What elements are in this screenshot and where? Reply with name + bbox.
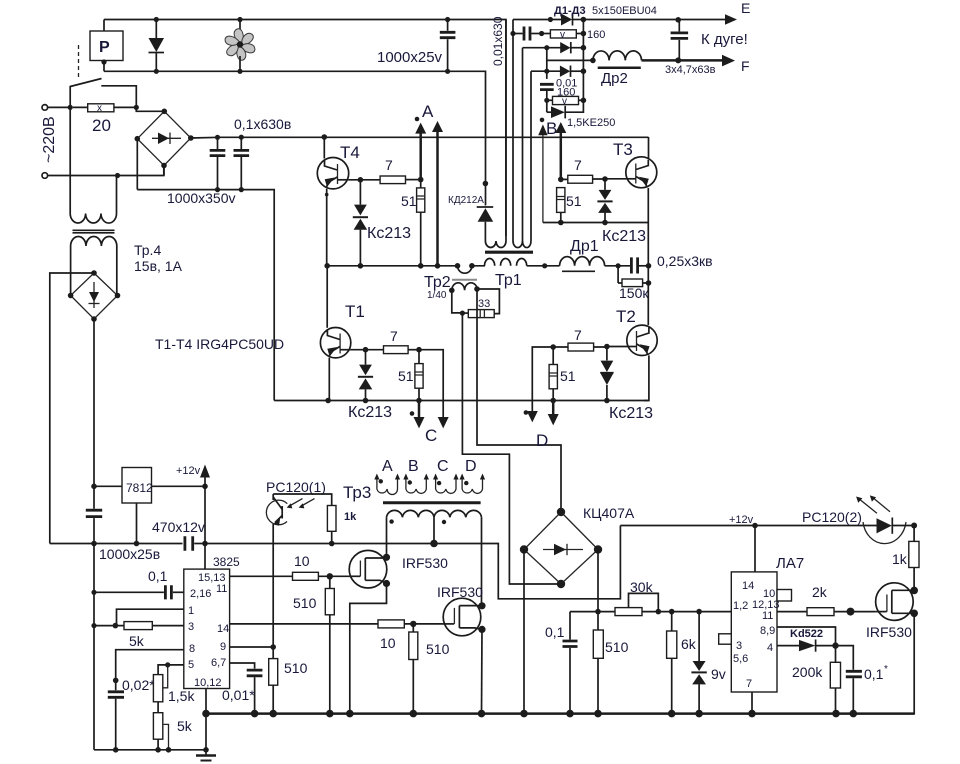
svg-text:5x150EBU04: 5x150EBU04 <box>592 5 657 17</box>
node A arrows <box>415 102 443 269</box>
svg-text:7812: 7812 <box>126 481 153 495</box>
fuse-thermistor x 20 <box>73 103 139 135</box>
svg-text:51: 51 <box>566 193 582 209</box>
svg-text:1k: 1k <box>892 551 908 567</box>
svg-text:510: 510 <box>293 595 317 611</box>
resistor 51 T4 <box>401 180 425 269</box>
svg-text:F: F <box>741 58 750 74</box>
resistor 510 two <box>409 624 450 717</box>
wire negative rail caps <box>137 190 274 401</box>
resistor 33 <box>452 289 500 318</box>
svg-text:Т1-Т4 IRG4PC50UD: Т1-Т4 IRG4PC50UD <box>155 336 284 352</box>
svg-text:1,5KE250: 1,5KE250 <box>567 117 615 129</box>
label ~220B <box>41 116 58 163</box>
svg-text:3825: 3825 <box>213 555 240 569</box>
svg-text:С: С <box>425 426 437 445</box>
svg-text:К дуге!: К дуге! <box>701 31 748 48</box>
label Tr4 <box>134 242 183 274</box>
svg-text:В: В <box>546 119 557 138</box>
svg-text:7: 7 <box>746 678 752 690</box>
svg-text:51: 51 <box>560 368 576 384</box>
snubber cap row2 <box>510 27 550 41</box>
svg-text:1/40: 1/40 <box>427 290 447 301</box>
diode KD212A <box>448 181 493 222</box>
svg-text:D: D <box>465 458 477 475</box>
svg-text:6,7: 6,7 <box>211 657 226 669</box>
svg-text:IRF530: IRF530 <box>437 584 483 600</box>
svg-text:8,9: 8,9 <box>760 625 775 637</box>
wire IRF1 source <box>346 584 387 718</box>
capacitor 0,1x630v a <box>210 135 226 193</box>
transistor T2 <box>616 307 657 401</box>
wire IRF3 source <box>910 613 914 713</box>
svg-text:10,12: 10,12 <box>194 677 222 689</box>
svg-text:5,6: 5,6 <box>733 653 748 665</box>
wire bottom bus2 <box>94 747 209 753</box>
wire KC407A plus node <box>595 550 601 615</box>
capacitor 470x12v <box>152 519 208 551</box>
svg-text:510: 510 <box>426 641 450 657</box>
svg-text:7: 7 <box>574 327 582 343</box>
wire rail +310 to inverter <box>191 136 649 139</box>
svg-text:7: 7 <box>574 157 582 173</box>
capacitor 0,02 <box>108 677 155 750</box>
wire output E <box>583 0 750 25</box>
fan M1 <box>223 17 256 74</box>
winding B Tr3 <box>403 458 429 493</box>
svg-text:51: 51 <box>398 368 414 384</box>
transistor T4 <box>317 134 360 266</box>
svg-text:0,25x3кв: 0,25x3кв <box>657 253 713 269</box>
svg-text:3: 3 <box>736 640 742 652</box>
svg-text:PC120(1): PC120(1) <box>266 479 326 495</box>
wire pin9 node <box>230 644 276 650</box>
MOSFET IRF530 three <box>866 583 918 640</box>
svg-text:1000x25v: 1000x25v <box>377 49 443 66</box>
resistor 10 two <box>230 620 441 651</box>
label T1-T4 IRG4PC50UD <box>155 336 284 352</box>
svg-text:PC120(2): PC120(2) <box>802 509 862 525</box>
wire aux plus down <box>93 319 95 486</box>
svg-text:10: 10 <box>380 635 396 651</box>
resistor 51 T1 <box>398 350 423 404</box>
svg-text:14: 14 <box>742 580 754 592</box>
transformer Tr4 core <box>73 230 115 233</box>
node B arrows <box>538 118 566 223</box>
wire lower rail <box>274 400 648 402</box>
snubber resistor v row2 <box>550 29 605 41</box>
svg-text:P: P <box>99 39 110 56</box>
svg-text:Тр1: Тр1 <box>495 272 522 289</box>
svg-text:6k: 6k <box>681 636 697 652</box>
svg-text:11: 11 <box>216 583 227 595</box>
diode D1 <box>561 14 586 26</box>
svg-text:Кс213: Кс213 <box>367 225 411 242</box>
svg-text:E: E <box>741 0 750 16</box>
wire aux minus to ground rail <box>50 273 94 544</box>
resistor 510 one <box>293 576 334 717</box>
transformer Tr1 core <box>485 251 533 254</box>
resistor 7 T4 <box>380 157 423 184</box>
wire gnd left vertical <box>91 544 96 750</box>
svg-text:КД212А: КД212А <box>448 195 484 206</box>
svg-text:160: 160 <box>587 29 605 41</box>
snubber resistor v row5 <box>547 96 586 107</box>
MOSFET IRF530 two <box>437 584 486 636</box>
svg-text:0,1x630в: 0,1x630в <box>234 116 291 132</box>
capacitor 0,25x3kv <box>605 253 713 274</box>
resistor 2k <box>777 584 876 616</box>
svg-text:Кс213: Кс213 <box>602 228 646 245</box>
resistor 7 T2 <box>550 327 627 351</box>
svg-text:11: 11 <box>762 610 773 622</box>
svg-text:С: С <box>437 458 449 475</box>
svg-text:Д1-Д3: Д1-Д3 <box>554 5 586 17</box>
svg-text:1000x25в: 1000x25в <box>99 546 160 562</box>
bridge rectifier VD1 input <box>135 107 194 189</box>
potentiometer 30k <box>615 579 731 616</box>
IC U2 LA7 <box>719 555 805 692</box>
wire pin1 <box>117 609 184 625</box>
zener Kc213 T1 <box>348 350 392 421</box>
zener Kc213 T3 <box>597 179 646 245</box>
svg-text:1: 1 <box>188 605 194 617</box>
svg-text:15в, 1А: 15в, 1А <box>134 258 183 274</box>
svg-text:3x4,7x63в: 3x4,7x63в <box>665 64 716 76</box>
wire secondary tap row1 <box>513 17 561 22</box>
wire fb node rail <box>570 611 615 613</box>
wire anode bus to Dr2 <box>547 48 596 79</box>
svg-text:0,01*: 0,01* <box>222 687 255 703</box>
svg-text:470x12v: 470x12v <box>152 519 205 535</box>
svg-text:33: 33 <box>478 298 490 310</box>
transistor T1 <box>320 263 364 403</box>
svg-text:20: 20 <box>92 116 111 135</box>
diode Kd522 <box>777 628 839 652</box>
optocoupler PC120-2 <box>802 495 917 543</box>
svg-text:Тр.4: Тр.4 <box>134 242 161 258</box>
capacitor 0,1 fb <box>545 612 578 718</box>
svg-text:T3: T3 <box>613 140 633 159</box>
capacitor 3x4,7x63v <box>665 20 716 76</box>
terminal ~220V upper <box>42 105 73 111</box>
wire +12v to center tap <box>434 526 620 599</box>
zener Kc213 T4 <box>353 180 411 269</box>
capacitor snubber 0,01 160 <box>540 78 577 113</box>
resistor 7 T3 <box>561 157 626 183</box>
transformer Tr4 secondary <box>71 236 117 295</box>
terminal ~220V lower <box>42 167 164 179</box>
capacitor 0,01 pin67 <box>222 670 262 717</box>
diode D3 <box>560 66 586 77</box>
transformer Tr1 secondary <box>472 258 560 289</box>
wire ground rail left <box>50 543 183 545</box>
svg-text:9v: 9v <box>711 666 726 682</box>
svg-text:0,1: 0,1 <box>545 624 565 640</box>
svg-text:x: x <box>97 103 102 114</box>
wire +12v rail right <box>620 514 876 526</box>
winding C Tr3 <box>433 458 459 493</box>
resistor 7 T1 <box>384 328 422 354</box>
svg-text:4: 4 <box>767 642 773 654</box>
svg-text:+12v: +12v <box>729 514 754 526</box>
diode VD-fan <box>149 17 165 74</box>
svg-text:200k: 200k <box>792 664 823 680</box>
MOSFET IRF530 one <box>349 550 448 588</box>
inductor Dr1 <box>560 238 605 271</box>
resistor 10 one <box>230 553 350 580</box>
resistor 510 fb <box>593 612 628 718</box>
wire pin89 <box>777 627 836 646</box>
svg-text:7: 7 <box>385 157 393 173</box>
svg-text:10: 10 <box>294 553 310 569</box>
zener Kc213 T2 <box>600 347 653 423</box>
svg-text:v: v <box>560 29 565 40</box>
transformer Tr3 core <box>383 501 481 504</box>
node D arrows <box>524 347 559 450</box>
wire +12v rail mid <box>205 486 434 543</box>
regulator 7812 <box>91 468 205 547</box>
resistor 1k opto <box>327 506 357 547</box>
svg-text:КЦ407А: КЦ407А <box>583 505 635 521</box>
svg-text:Кс213: Кс213 <box>609 405 653 422</box>
svg-text:В: В <box>408 458 419 475</box>
svg-text:2k: 2k <box>812 584 828 600</box>
svg-text:14: 14 <box>217 623 229 635</box>
wire E bus vertical <box>582 20 584 101</box>
node C arrows <box>410 350 449 445</box>
svg-text:Kd522: Kd522 <box>790 628 823 640</box>
svg-text:Тр3: Тр3 <box>343 483 371 502</box>
wire LA7 pin14 <box>752 523 758 572</box>
wire secondary tap row3 <box>523 45 561 50</box>
svg-text:ЛА7: ЛА7 <box>776 555 804 572</box>
ground symbol <box>196 689 216 761</box>
transformer Tr3 secondary <box>387 510 482 605</box>
capacitor 0,1 star <box>836 646 889 718</box>
svg-text:0,02*: 0,02* <box>122 677 155 693</box>
svg-text:*: * <box>884 664 888 675</box>
wire top rail +310 upper <box>104 20 506 237</box>
svg-text:~220В: ~220В <box>41 116 58 163</box>
svg-text:T4: T4 <box>340 143 360 162</box>
svg-text:5k: 5k <box>129 633 145 649</box>
zener 9v <box>691 612 725 718</box>
resistor 51 T3 <box>557 188 582 226</box>
svg-text:1,5k: 1,5k <box>168 688 195 704</box>
node +12v arrow <box>176 465 210 490</box>
transformer Tr2 current <box>424 263 480 301</box>
wire T4 gate node <box>349 177 380 183</box>
inductor Dr2 <box>593 51 642 87</box>
svg-text:А: А <box>422 102 434 121</box>
wire pin5 <box>158 662 184 687</box>
IC U1 3825 <box>184 544 240 690</box>
transformer Tr1 primary hairpins <box>485 20 531 248</box>
resistor 150k <box>618 266 651 301</box>
svg-text:5k: 5k <box>177 718 193 734</box>
resistor 5k pin3 <box>94 622 184 649</box>
relay P1 <box>90 20 123 72</box>
svg-text:30k: 30k <box>630 579 654 595</box>
label D1-D3 <box>554 5 657 17</box>
transformer Tr4 primary <box>70 107 116 223</box>
wire pin8 to cap <box>113 650 184 691</box>
diode D2 <box>560 42 586 53</box>
wire LA7 pin7 <box>748 692 756 717</box>
svg-text:Др1: Др1 <box>570 238 599 255</box>
svg-text:Тр2: Тр2 <box>424 274 451 291</box>
diode 1,5KE250 <box>547 100 616 129</box>
wire Tr2 sec right to KC407 <box>477 289 561 512</box>
resistor 1,5k <box>153 675 195 713</box>
svg-text:0,01x630: 0,01x630 <box>491 16 505 66</box>
svg-text:v: v <box>562 96 567 107</box>
optocoupler PC120-1 <box>266 479 332 647</box>
svg-text:2,16: 2,16 <box>190 588 211 600</box>
svg-text:T2: T2 <box>616 307 636 326</box>
label K duge <box>701 31 748 48</box>
wire Tr2 sec left to KC407 <box>462 313 561 584</box>
wire second rail <box>104 71 486 205</box>
wire T1 gate node <box>350 347 383 353</box>
svg-text:7: 7 <box>390 328 398 344</box>
wire pin67 <box>230 663 255 669</box>
label 0,01x630 vertical <box>491 16 505 66</box>
winding D Tr3 <box>460 458 486 493</box>
bridge rectifier VD2 aux <box>68 270 121 322</box>
svg-text:3: 3 <box>188 621 194 633</box>
resistor 1k right <box>892 526 919 591</box>
capacitor 0,1 pin216 <box>94 568 184 599</box>
svg-text:1,2: 1,2 <box>733 600 748 612</box>
svg-text:5: 5 <box>188 659 194 671</box>
resistor 200k <box>792 646 841 718</box>
wire midpoint bus left <box>327 265 438 267</box>
resistor 510 pin9 <box>269 647 308 717</box>
bridge KC407A <box>520 505 635 588</box>
svg-text:1k: 1k <box>344 511 357 523</box>
svg-text:0,1: 0,1 <box>864 666 884 682</box>
wire IRF2 source <box>478 629 486 717</box>
resistor 6k <box>667 612 697 718</box>
resistor 5k trim <box>153 713 192 750</box>
svg-text:9: 9 <box>220 641 226 653</box>
switch S1 with dashed link to relay <box>70 45 136 107</box>
svg-text:8: 8 <box>189 643 195 655</box>
wire secondary tap row4 <box>531 69 560 74</box>
wire output F <box>642 55 750 74</box>
capacitor 1000x25v left <box>86 486 160 562</box>
svg-text:51: 51 <box>401 193 417 209</box>
capacitor 0,1x630v b <box>234 116 292 192</box>
wire T3 emitter bus <box>543 223 648 326</box>
label 1000x350v <box>167 190 236 206</box>
svg-text:А: А <box>382 458 393 475</box>
svg-text:IRF530: IRF530 <box>402 555 448 571</box>
svg-text:0,1: 0,1 <box>148 568 168 584</box>
svg-text:IRF530: IRF530 <box>866 624 912 640</box>
svg-text:Кс213: Кс213 <box>348 404 392 421</box>
wire ground bus main <box>202 710 914 718</box>
svg-text:1000x350v: 1000x350v <box>167 190 236 206</box>
svg-text:510: 510 <box>284 660 308 676</box>
svg-text:D: D <box>536 431 548 450</box>
svg-text:Др2: Др2 <box>601 70 628 87</box>
svg-text:T1: T1 <box>345 302 365 321</box>
svg-text:+12v: +12v <box>176 465 201 477</box>
wire KC407A minus to gnd <box>520 550 528 718</box>
svg-text:510: 510 <box>605 639 629 655</box>
capacitor 1000x25v <box>377 17 455 74</box>
svg-text:150к: 150к <box>619 285 649 301</box>
resistor 51 T2 <box>549 347 576 403</box>
transistor T3 <box>613 137 657 223</box>
winding A Tr3 <box>374 458 400 495</box>
transformer Tr3 label <box>343 483 371 502</box>
